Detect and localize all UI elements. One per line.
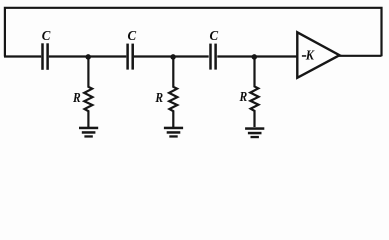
svg-text:C: C: [127, 27, 136, 42]
svg-text:K: K: [305, 47, 315, 63]
svg-text:R: R: [72, 90, 81, 105]
svg-text:C: C: [42, 27, 51, 42]
svg-text:C: C: [209, 27, 218, 42]
svg-text:R: R: [239, 89, 248, 104]
svg-text:R: R: [154, 90, 163, 105]
